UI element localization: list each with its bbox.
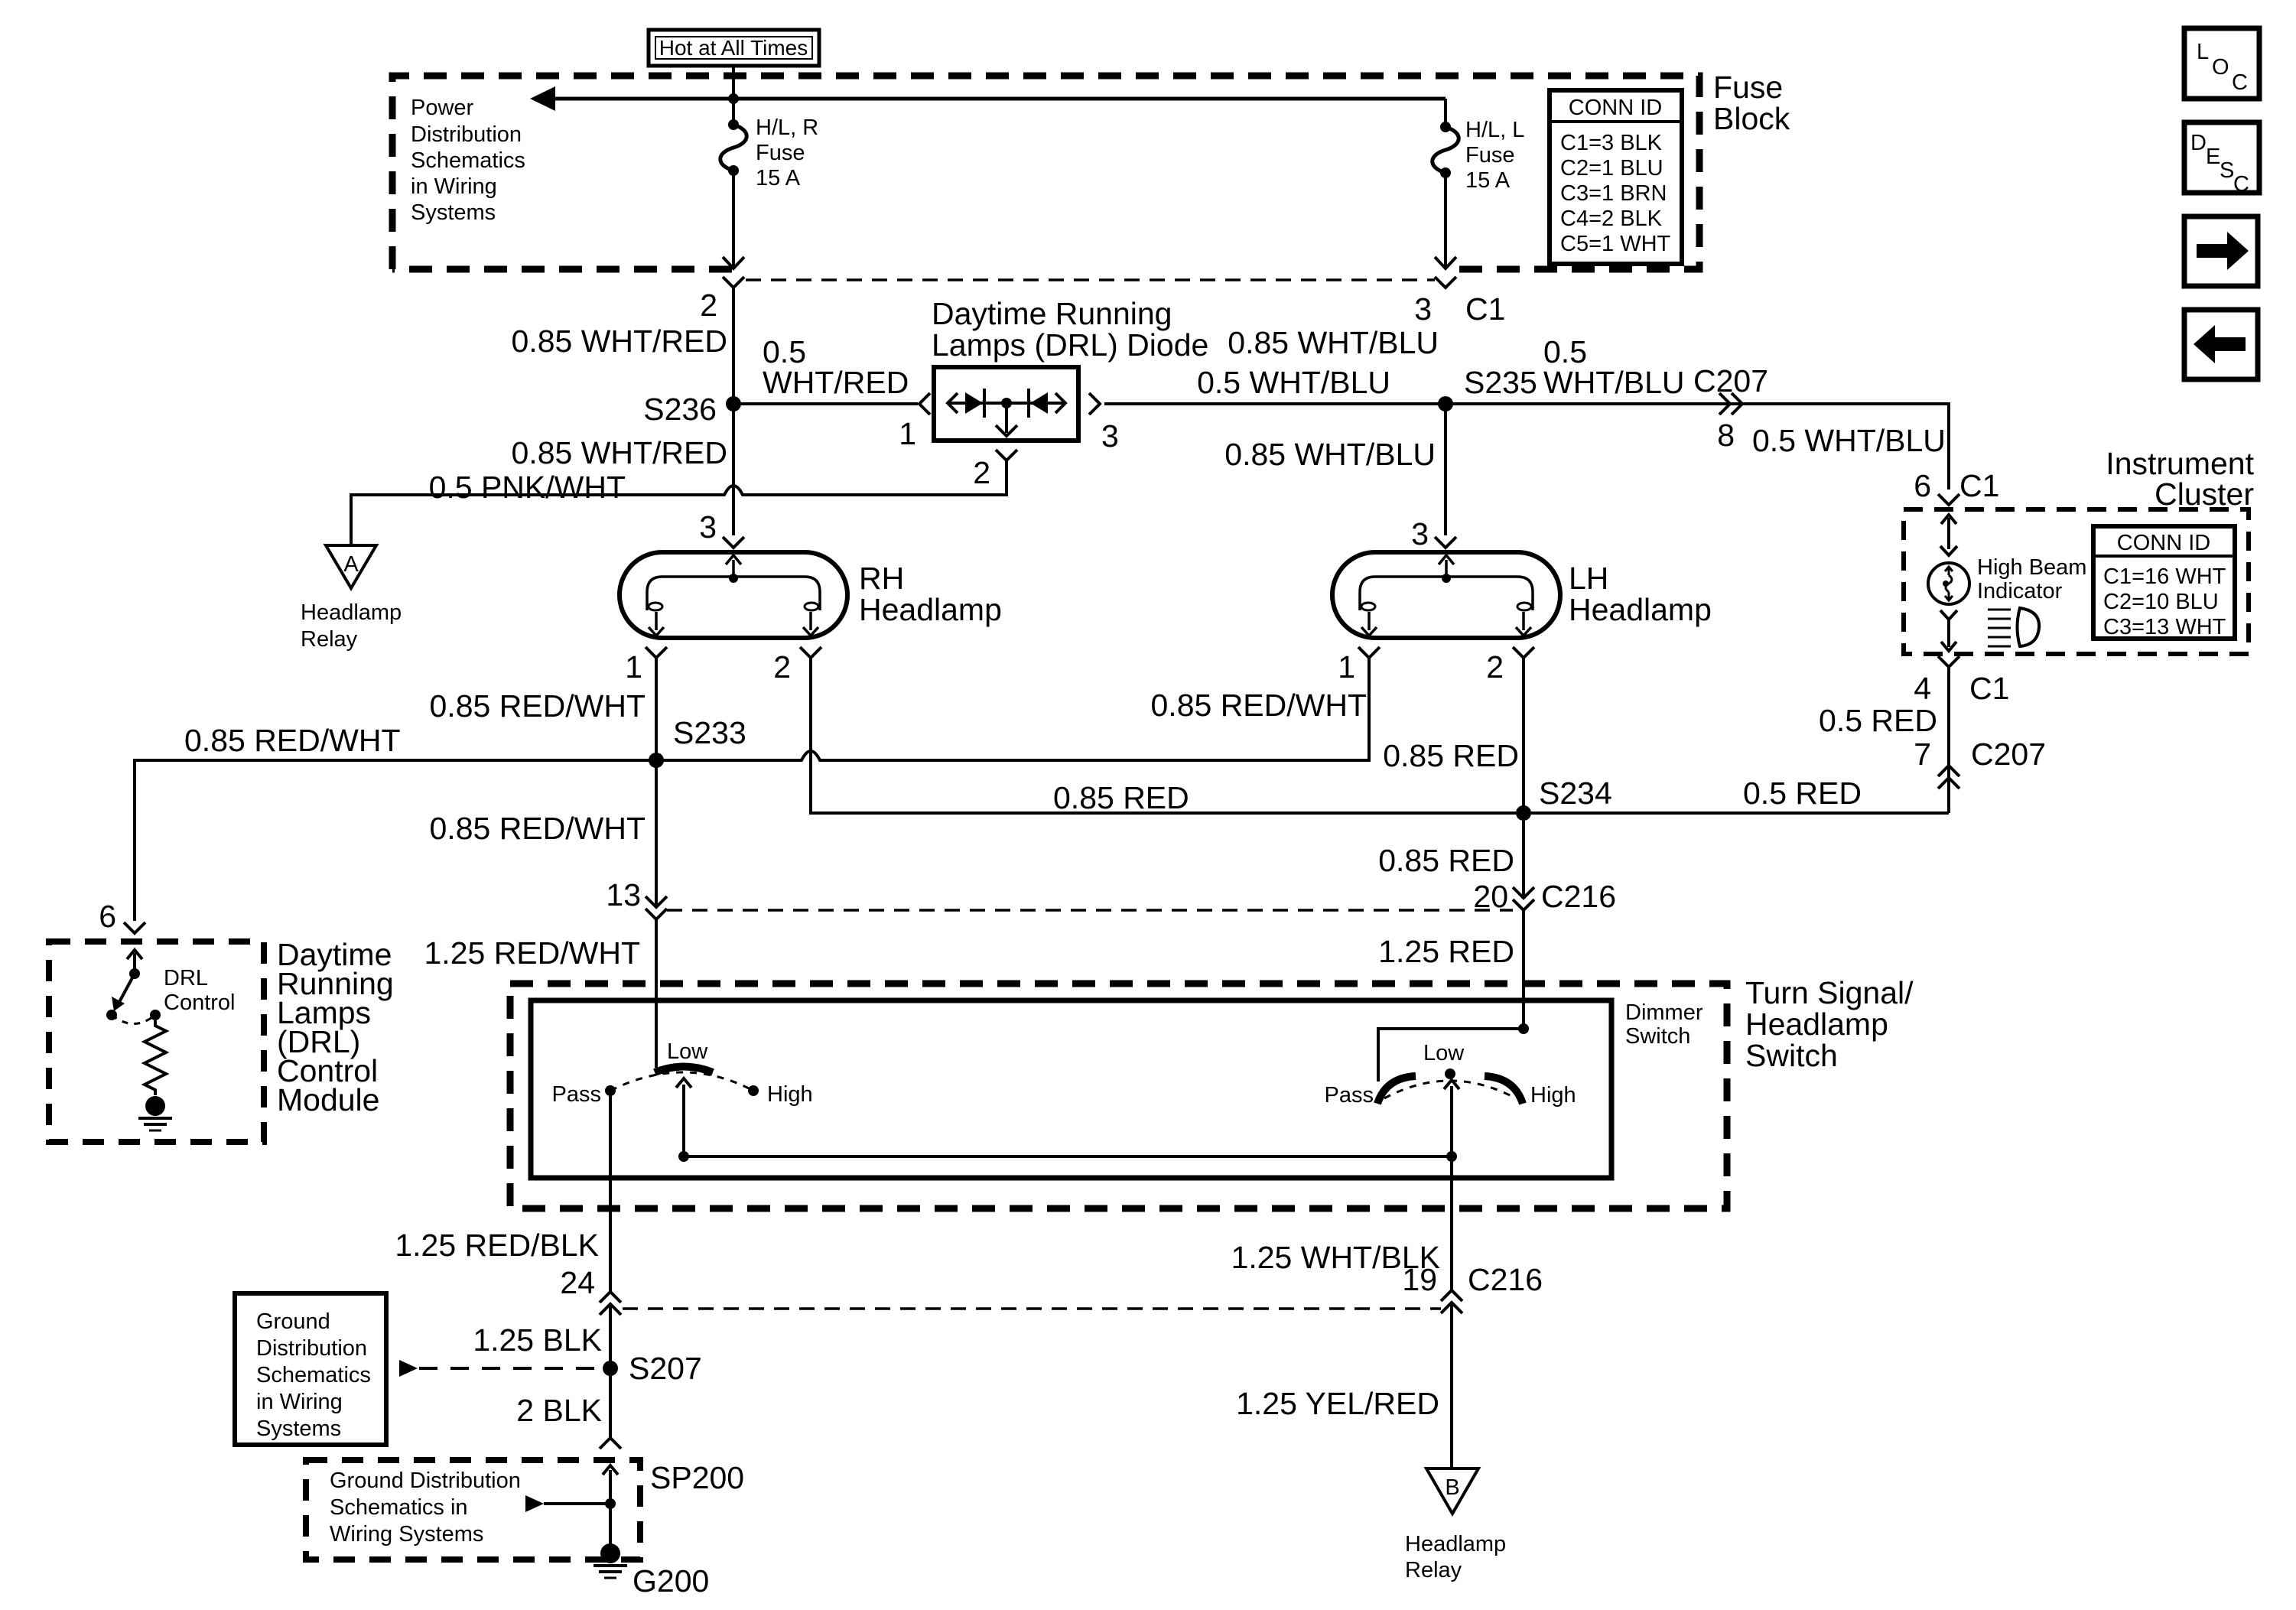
svg-text:0.85 RED: 0.85 RED bbox=[1383, 738, 1519, 773]
label: Dimmer Switch bbox=[1625, 1000, 1703, 1049]
svg-text:1.25 RED: 1.25 RED bbox=[1378, 934, 1514, 969]
svg-text:B: B bbox=[1445, 1475, 1459, 1500]
svg-text:CONN ID: CONN ID bbox=[1569, 96, 1662, 120]
wire: left fuse output with down arrow bbox=[723, 171, 744, 268]
svg-text:SP200: SP200 bbox=[650, 1460, 744, 1495]
svg-text:LH: LH bbox=[1569, 561, 1608, 596]
label: H/L, L Fuse 15 A bbox=[1465, 118, 1524, 193]
svg-text:Pass: Pass bbox=[552, 1082, 601, 1107]
connector chevron DRL pin 6 bbox=[124, 922, 145, 933]
svg-text:0.5 RED: 0.5 RED bbox=[1743, 776, 1862, 811]
pin label 6 / C1 bbox=[1914, 468, 1999, 503]
LH pin 2 chevron and wire to S234 bbox=[1513, 647, 1534, 813]
wire: S236 to diode pin1 bbox=[733, 402, 918, 405]
svg-text:Headlamp: Headlamp bbox=[859, 592, 1002, 627]
high beam indicator bulb bbox=[1928, 563, 1969, 604]
svg-text:H/L, R: H/L, R bbox=[756, 115, 818, 140]
ground G200 symbol bbox=[594, 1543, 627, 1578]
pin label 20 / C216 bbox=[1473, 879, 1616, 914]
wiper tie line bbox=[684, 1155, 1452, 1158]
right dimmer dashed travel arc bbox=[1384, 1081, 1516, 1098]
label: Headlamp Relay (bottom) bbox=[1405, 1532, 1506, 1582]
LOC nav box bbox=[2184, 28, 2259, 99]
RH pin 1 chevron and wire bbox=[646, 647, 667, 760]
label 0.5 WHT/BLU (two lines) bbox=[1543, 334, 1685, 400]
svg-text:H/L, L: H/L, L bbox=[1465, 118, 1524, 142]
svg-text:Systems: Systems bbox=[256, 1416, 341, 1441]
RH pin 2 chevron and wire bbox=[800, 647, 1949, 813]
svg-text:Distribution: Distribution bbox=[411, 122, 522, 147]
svg-text:C4=2 BLK: C4=2 BLK bbox=[1560, 207, 1663, 231]
wire: Pass contact down to pin 24 bbox=[609, 1091, 612, 1292]
svg-text:C216: C216 bbox=[1468, 1262, 1543, 1297]
right dimmer Low contact dot bbox=[1445, 1068, 1455, 1079]
connector chevron diode pin 1 bbox=[919, 393, 930, 415]
fuse H/L R 15A bbox=[720, 119, 747, 176]
svg-text:0.5 WHT/BLU: 0.5 WHT/BLU bbox=[1197, 365, 1390, 400]
diode D2 bbox=[1029, 389, 1048, 418]
svg-text:3: 3 bbox=[1101, 418, 1119, 454]
connector chevron RH pin3 bbox=[723, 537, 744, 548]
svg-text:Module: Module bbox=[277, 1082, 379, 1117]
svg-text:0.5 PNK/WHT: 0.5 PNK/WHT bbox=[429, 470, 626, 505]
instrument cluster dashed box bbox=[1904, 509, 2249, 654]
fuse H/L L 15A bbox=[1433, 122, 1459, 178]
svg-text:Ground: Ground bbox=[256, 1309, 330, 1334]
wire: diode pin2 down, left with hop, to relay drop bbox=[351, 460, 1007, 544]
svg-text:0.85 RED/WHT: 0.85 RED/WHT bbox=[430, 811, 646, 846]
svg-text:0.5 RED: 0.5 RED bbox=[1819, 703, 1937, 738]
svg-text:Systems: Systems bbox=[411, 200, 496, 225]
wire: S233 down to pin 13 bbox=[655, 760, 658, 906]
svg-text:O: O bbox=[2212, 55, 2229, 80]
ground distribution schematics box (solid) bbox=[235, 1293, 386, 1445]
svg-text:Dimmer: Dimmer bbox=[1625, 1000, 1703, 1025]
svg-text:Schematics in: Schematics in bbox=[330, 1495, 468, 1520]
label DRL Control bbox=[164, 966, 236, 1015]
svg-text:1: 1 bbox=[1338, 649, 1355, 685]
LH pin 1 chevron and wire to S233 bbox=[656, 647, 1380, 760]
connector C1 pin 2 female chevron bbox=[723, 277, 744, 288]
svg-text:Relay: Relay bbox=[301, 627, 358, 652]
connector C216 pin24 double chevron bbox=[600, 1292, 621, 1315]
svg-text:0.85 WHT/BLU: 0.85 WHT/BLU bbox=[1224, 437, 1436, 472]
svg-text:S207: S207 bbox=[629, 1351, 702, 1386]
svg-text:1: 1 bbox=[899, 416, 916, 451]
forward arrow nav box bbox=[2184, 216, 2258, 286]
svg-text:8: 8 bbox=[1717, 418, 1735, 453]
node: diode center junction bbox=[1001, 398, 1012, 408]
svg-text:C207: C207 bbox=[1971, 737, 2046, 772]
connector chevron SP200 bbox=[600, 1438, 621, 1449]
left dimmer Pass contact dot bbox=[605, 1085, 616, 1096]
svg-text:Control: Control bbox=[164, 990, 236, 1015]
svg-text:S235: S235 bbox=[1464, 365, 1537, 400]
svg-text:24: 24 bbox=[560, 1265, 595, 1300]
svg-text:Cluster: Cluster bbox=[2155, 476, 2254, 512]
diode pin2 internal down arrow bbox=[996, 403, 1017, 436]
SP200 internal arrow and tie bbox=[525, 1495, 616, 1512]
wire: pin19 to headlamp relay B bbox=[1450, 1303, 1453, 1469]
CONN ID table (instrument cluster) bbox=[2093, 526, 2235, 639]
svg-text:Headlamp: Headlamp bbox=[301, 600, 402, 625]
svg-text:Hot at All Times: Hot at All Times bbox=[659, 36, 808, 60]
svg-text:L: L bbox=[2197, 40, 2209, 64]
svg-text:Schematics: Schematics bbox=[256, 1363, 371, 1387]
svg-text:Wiring Systems: Wiring Systems bbox=[330, 1522, 483, 1547]
DRL diode box bbox=[934, 367, 1078, 441]
svg-text:2: 2 bbox=[700, 288, 717, 323]
wire: S236 down to RH headlamp pin3 bbox=[732, 404, 735, 535]
svg-text:High Beam: High Beam bbox=[1977, 555, 2086, 580]
svg-text:15 A: 15 A bbox=[756, 166, 801, 190]
wire: cluster pin4 down to S234 line bbox=[1947, 667, 1950, 813]
svg-text:Switch: Switch bbox=[1625, 1024, 1690, 1049]
triangle A headlamp relay reference bbox=[326, 545, 376, 588]
svg-text:C2=10 BLU: C2=10 BLU bbox=[2103, 590, 2219, 614]
svg-text:in Wiring: in Wiring bbox=[411, 174, 497, 199]
svg-text:G200: G200 bbox=[633, 1563, 709, 1599]
svg-text:20: 20 bbox=[1473, 879, 1508, 914]
connector C216 pin19 double chevron bbox=[1441, 1290, 1462, 1313]
label: Instrument Cluster bbox=[2106, 446, 2254, 512]
svg-text:6: 6 bbox=[1914, 468, 1931, 503]
svg-text:1: 1 bbox=[625, 649, 642, 685]
wire: S234 down to pin 20 bbox=[1522, 813, 1525, 897]
svg-text:7: 7 bbox=[1914, 737, 1931, 772]
pin label 7 / C207 bbox=[1914, 737, 2046, 772]
svg-text:0.85 RED: 0.85 RED bbox=[1378, 843, 1514, 878]
pin label 4 / C1 bbox=[1914, 671, 2009, 706]
svg-text:0.85 RED/WHT: 0.85 RED/WHT bbox=[1151, 688, 1368, 723]
connector chevron LH pin3 bbox=[1435, 537, 1456, 548]
connector C216 pin20 double chevron bbox=[1513, 887, 1534, 910]
svg-text:0.85 WHT/RED: 0.85 WHT/RED bbox=[512, 435, 728, 470]
svg-text:Indicator: Indicator bbox=[1977, 579, 2063, 603]
label: LH Headlamp bbox=[1569, 561, 1712, 627]
fuse block dashed box bbox=[392, 76, 1699, 269]
svg-text:WHT/RED: WHT/RED bbox=[763, 365, 909, 400]
svg-text:2: 2 bbox=[773, 649, 791, 685]
label: High Beam Indicator bbox=[1977, 555, 2086, 603]
triangle B headlamp relay reference bbox=[1426, 1469, 1478, 1514]
DRL switch blade with arrow bbox=[112, 974, 135, 1011]
right dimmer feed wire to Pass contact bbox=[1378, 1029, 1524, 1081]
LH headlamp housing bbox=[1332, 552, 1560, 638]
wire: pin24 to S207 to SP200 bbox=[609, 1304, 612, 1438]
DRL internal ground bbox=[138, 1096, 172, 1130]
svg-text:C: C bbox=[2233, 172, 2249, 197]
svg-text:C2=1 BLU: C2=1 BLU bbox=[1560, 156, 1663, 181]
svg-text:S: S bbox=[2220, 158, 2234, 183]
svg-text:C3=1 BRN: C3=1 BRN bbox=[1560, 181, 1667, 206]
connector C1 pin 3 female chevron bbox=[1435, 277, 1456, 288]
right dimmer Pass contact arc bbox=[1377, 1076, 1416, 1104]
right dimmer High contact arc bbox=[1485, 1076, 1523, 1104]
left dimmer: Low contact arc bbox=[655, 1067, 713, 1073]
DRL internal input arrow bbox=[127, 950, 142, 974]
svg-text:High: High bbox=[1530, 1083, 1576, 1107]
connector C216 dashed line (upper) bbox=[667, 909, 1513, 912]
svg-text:WHT/BLU: WHT/BLU bbox=[1543, 365, 1685, 400]
svg-text:Headlamp: Headlamp bbox=[1405, 1532, 1506, 1556]
SP200 entry arrow bbox=[603, 1465, 618, 1504]
diode pin 2 female chevron bbox=[996, 450, 1017, 460]
svg-text:Headlamp: Headlamp bbox=[1569, 592, 1712, 627]
wire: S233 left and down to DRL module pin 6 bbox=[135, 760, 656, 921]
svg-text:Switch: Switch bbox=[1745, 1038, 1838, 1073]
svg-text:1.25 RED/WHT: 1.25 RED/WHT bbox=[424, 935, 641, 971]
label: RH Headlamp bbox=[859, 561, 1002, 627]
svg-text:0.85 RED: 0.85 RED bbox=[1053, 780, 1189, 815]
SP200 dashed box bbox=[306, 1460, 640, 1560]
svg-text:1.25 BLK: 1.25 BLK bbox=[473, 1322, 602, 1358]
svg-text:S233: S233 bbox=[673, 715, 746, 750]
right dimmer wiper arrow bbox=[1444, 1080, 1459, 1162]
svg-text:Ground Distribution: Ground Distribution bbox=[330, 1469, 521, 1493]
svg-text:2: 2 bbox=[1486, 649, 1504, 685]
svg-text:DRL: DRL bbox=[164, 966, 208, 990]
svg-text:19: 19 bbox=[1402, 1262, 1437, 1297]
svg-text:Fuse: Fuse bbox=[1465, 143, 1514, 168]
svg-text:2: 2 bbox=[973, 455, 990, 490]
splice S233 bbox=[649, 753, 664, 768]
DRL control module dashed box bbox=[49, 942, 264, 1142]
LH headlamp bulb inner shape bbox=[1360, 555, 1533, 636]
svg-text:C1: C1 bbox=[1959, 468, 1999, 503]
left dimmer wiper arrow bbox=[676, 1078, 691, 1162]
splice S207 bbox=[603, 1361, 618, 1376]
DRL dashed contact arc bbox=[112, 1015, 155, 1024]
svg-text:0.85 WHT/RED: 0.85 WHT/RED bbox=[512, 324, 728, 359]
svg-text:RH: RH bbox=[859, 561, 904, 596]
switch inner solid box bbox=[531, 1000, 1611, 1178]
connector C207 pin7 double chevron bbox=[1938, 766, 1959, 789]
svg-text:D: D bbox=[2190, 131, 2207, 155]
svg-text:Fuse: Fuse bbox=[1713, 70, 1783, 105]
wire: right fuse output with down arrow bbox=[1435, 173, 1456, 268]
svg-text:0.85 RED/WHT: 0.85 RED/WHT bbox=[430, 688, 646, 724]
svg-text:1.25 RED/BLK: 1.25 RED/BLK bbox=[395, 1228, 599, 1263]
high beam indicator feed arrow bbox=[1940, 515, 1957, 555]
label: Fuse Block bbox=[1713, 70, 1790, 136]
svg-text:C1=16 WHT: C1=16 WHT bbox=[2103, 564, 2226, 589]
svg-text:Turn Signal/: Turn Signal/ bbox=[1745, 975, 1914, 1010]
wire: diode pin3 to S235 to cluster pin 6 bbox=[1104, 404, 1949, 490]
svg-text:1.25 YEL/RED: 1.25 YEL/RED bbox=[1236, 1386, 1439, 1421]
svg-text:C5=1 WHT: C5=1 WHT bbox=[1560, 232, 1671, 256]
connector C207 double chevron bbox=[1719, 393, 1742, 415]
label: Daytime Running Lamps (DRL) Diode bbox=[932, 296, 1208, 363]
wire: Hot box down to left fuse bbox=[732, 66, 735, 125]
label: Turn Signal/ Headlamp Switch bbox=[1745, 975, 1914, 1073]
DRL resistor bbox=[145, 1020, 166, 1095]
splice S236 bbox=[726, 396, 741, 411]
wire: pin13 into switch bbox=[655, 919, 658, 1068]
connector chevron cluster pin 4 bbox=[1938, 656, 1959, 667]
high beam indicator output arrow bbox=[1940, 610, 1957, 651]
svg-text:3: 3 bbox=[699, 509, 717, 545]
Hot at All Times label box bbox=[649, 30, 819, 66]
label: Headlamp Relay (left) bbox=[301, 600, 402, 652]
svg-text:6: 6 bbox=[99, 899, 116, 934]
pin label 19 / C216 bbox=[1402, 1262, 1543, 1297]
svg-text:4: 4 bbox=[1914, 671, 1931, 706]
left dimmer High contact dot bbox=[748, 1085, 759, 1096]
wire: battery feed horizontal with left arrow bbox=[530, 86, 1446, 111]
wire: pin20 into switch bbox=[1522, 910, 1525, 1029]
label: H/L, R Fuse 15 A bbox=[756, 115, 818, 190]
svg-text:0.85 WHT/BLU: 0.85 WHT/BLU bbox=[1228, 325, 1439, 360]
svg-text:Schematics: Schematics bbox=[411, 148, 525, 173]
diode D1 bbox=[965, 389, 984, 418]
label 0.5 WHT/RED (two lines) bbox=[763, 334, 909, 400]
svg-text:C216: C216 bbox=[1541, 879, 1616, 914]
svg-text:15 A: 15 A bbox=[1465, 168, 1511, 193]
svg-text:Lamps (DRL) Diode: Lamps (DRL) Diode bbox=[932, 327, 1208, 363]
svg-text:3: 3 bbox=[1414, 291, 1432, 327]
connector chevron cluster pin 6 bbox=[1938, 494, 1959, 505]
splice S234 bbox=[1516, 805, 1531, 821]
splice S235 bbox=[1438, 396, 1453, 411]
svg-text:S234: S234 bbox=[1539, 776, 1612, 811]
svg-text:Fuse: Fuse bbox=[756, 141, 805, 165]
svg-text:C1: C1 bbox=[1969, 671, 2009, 706]
label: Daytime Running Lamps (DRL) Control Module bbox=[277, 937, 394, 1117]
svg-text:CONN ID: CONN ID bbox=[2117, 531, 2210, 555]
svg-text:Low: Low bbox=[1423, 1041, 1465, 1065]
connector C216 dashed line (lower) bbox=[623, 1307, 1441, 1310]
svg-text:2 BLK: 2 BLK bbox=[516, 1393, 602, 1428]
svg-text:C207: C207 bbox=[1693, 363, 1768, 398]
svg-text:C1: C1 bbox=[1465, 291, 1505, 327]
connector chevron diode pin 3 bbox=[1089, 393, 1100, 415]
svg-text:High: High bbox=[767, 1082, 813, 1107]
svg-text:Daytime Running: Daytime Running bbox=[932, 296, 1172, 331]
left dimmer dashed travel arc bbox=[610, 1072, 753, 1091]
wire: SP200 to G200 bbox=[609, 1504, 612, 1551]
DRL contact dots bbox=[106, 1010, 161, 1020]
connector C216 pin13 double chevron bbox=[646, 896, 667, 919]
wire: wiper down to pin 19 bbox=[1450, 1156, 1453, 1290]
connector C1 dashed line bbox=[746, 278, 1435, 281]
RH headlamp housing bbox=[620, 552, 847, 638]
svg-text:C: C bbox=[2232, 70, 2248, 95]
svg-text:Distribution: Distribution bbox=[256, 1336, 367, 1361]
note: Power Distribution Schematics in Wiring Systems bbox=[411, 96, 525, 225]
wire: Hot feed down to right fuse bbox=[1444, 99, 1447, 127]
svg-text:Headlamp: Headlamp bbox=[1745, 1007, 1888, 1042]
svg-text:A: A bbox=[343, 552, 359, 577]
DRL switch pivot dot bbox=[129, 968, 140, 979]
turn signal / headlamp switch outer dashed box bbox=[510, 984, 1727, 1208]
svg-text:3: 3 bbox=[1411, 516, 1429, 551]
RH headlamp bulb inner shape bbox=[647, 555, 820, 636]
svg-text:0.85 RED/WHT: 0.85 RED/WHT bbox=[184, 723, 401, 758]
wire: S235 down to LH pin 3 bbox=[1444, 404, 1447, 535]
pin label 3 and C1 bbox=[1414, 291, 1505, 327]
high beam icon bbox=[1988, 608, 2039, 646]
CONN ID table (fuse block) bbox=[1550, 90, 1682, 264]
svg-text:E: E bbox=[2206, 145, 2220, 169]
svg-text:C3=13 WHT: C3=13 WHT bbox=[2103, 615, 2226, 639]
right dimmer: feed dot bbox=[1518, 1023, 1529, 1034]
svg-text:Power: Power bbox=[411, 96, 474, 120]
back arrow nav box bbox=[2184, 310, 2258, 379]
svg-text:Low: Low bbox=[667, 1039, 708, 1064]
svg-text:Relay: Relay bbox=[1405, 1558, 1462, 1582]
svg-text:Block: Block bbox=[1713, 101, 1790, 136]
svg-text:Pass: Pass bbox=[1325, 1083, 1374, 1107]
DESC nav box bbox=[2184, 122, 2259, 197]
svg-text:0.5 WHT/BLU: 0.5 WHT/BLU bbox=[1752, 423, 1946, 458]
diode internal bus with end arrows bbox=[948, 393, 1065, 413]
SP200 box text bbox=[330, 1469, 521, 1547]
svg-text:S236: S236 bbox=[643, 392, 717, 427]
ground distribution reference arrow (dashed) bbox=[399, 1360, 598, 1377]
svg-text:C1=3 BLK: C1=3 BLK bbox=[1560, 131, 1663, 155]
svg-text:13: 13 bbox=[606, 877, 641, 912]
svg-text:in Wiring: in Wiring bbox=[256, 1390, 343, 1414]
wire: pin2 to S236 bbox=[732, 288, 735, 404]
